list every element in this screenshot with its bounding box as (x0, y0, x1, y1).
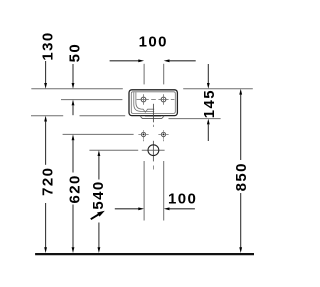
svg-text:100: 100 (139, 33, 168, 50)
fixing hole right (158, 130, 168, 141)
rim reference line left (31, 88, 123, 90)
dimension 145 (201, 64, 218, 141)
bottom tab (140, 116, 164, 119)
rim reference line right (183, 88, 253, 90)
dimension 850 (233, 89, 250, 253)
svg-text:100: 100 (168, 190, 197, 207)
extension line left (143, 64, 145, 85)
mounting hole right (158, 94, 168, 105)
extension line right (163, 64, 165, 85)
drain axis reference line (89, 149, 138, 151)
extension line right (163, 161, 165, 221)
basin inner rim line (131, 92, 175, 114)
svg-text:620: 620 (67, 174, 84, 203)
svg-text:850: 850 (233, 162, 250, 191)
fixing hole left (138, 130, 148, 141)
center line (152, 104, 154, 123)
mounting hole left (137, 94, 149, 105)
svg-text:145: 145 (201, 89, 218, 118)
dimension 720 (39, 116, 56, 253)
svg-text:720: 720 (39, 167, 56, 196)
basin bottom reference line left (31, 115, 63, 117)
floor line (35, 253, 254, 255)
mounting hole axis extension left (61, 99, 122, 101)
dimension 100 bottom (115, 161, 197, 221)
dimension 620 (67, 134, 84, 253)
dimension 540 (90, 150, 108, 253)
bowl left wall lines (134, 92, 154, 111)
svg-text:130: 130 (40, 31, 57, 60)
fixing hole axis reference line (63, 133, 134, 135)
basin outline (rear view) (129, 90, 177, 116)
extension line left (143, 161, 145, 221)
tab bottom reference line right (169, 118, 221, 120)
dimension 100 top (110, 33, 196, 84)
slope arrow symbol (90, 209, 107, 222)
svg-text:540: 540 (90, 180, 107, 209)
hole axis dash inside basin (151, 99, 156, 101)
dimension 50 (66, 43, 83, 115)
drain circle (148, 145, 159, 156)
dimension 130 (40, 31, 57, 88)
svg-text:50: 50 (66, 43, 83, 63)
